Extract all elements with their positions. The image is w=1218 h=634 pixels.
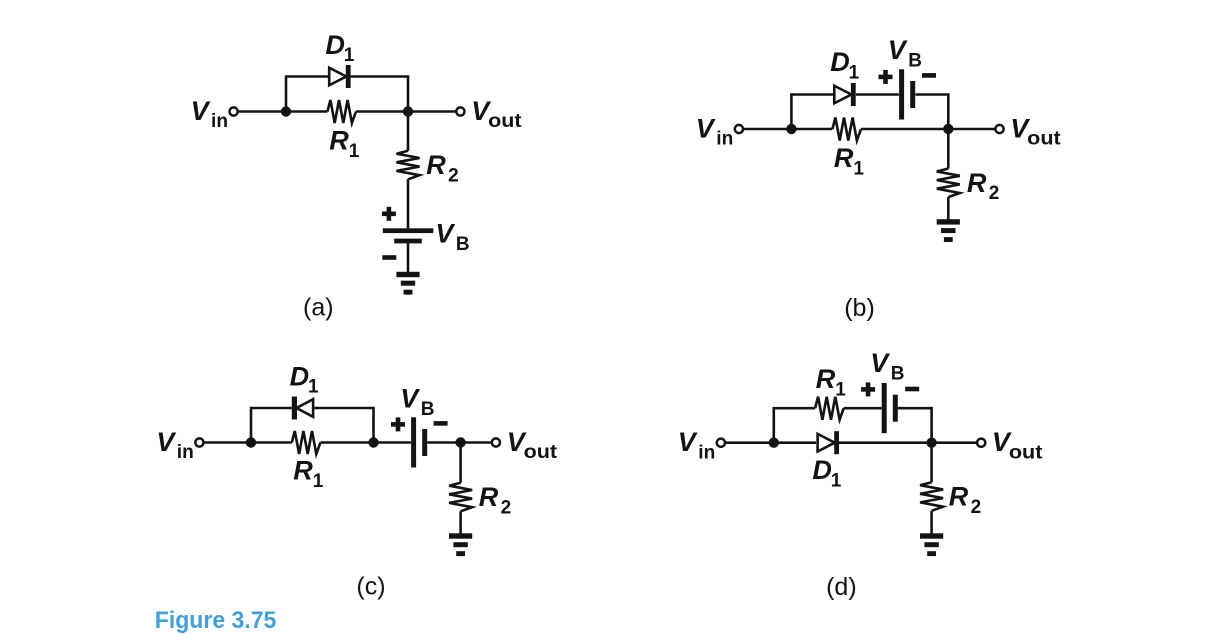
svg-text:R: R — [329, 126, 349, 156]
svg-text:2: 2 — [448, 165, 459, 186]
svg-text:Figure 3.75: Figure 3.75 — [155, 607, 276, 634]
svg-text:V: V — [156, 427, 176, 457]
svg-text:1: 1 — [853, 158, 864, 179]
svg-text:V: V — [888, 35, 908, 65]
svg-text:V: V — [191, 96, 211, 126]
svg-text:(a): (a) — [303, 294, 334, 322]
svg-text:1: 1 — [849, 62, 860, 83]
svg-text:D: D — [830, 47, 850, 77]
svg-text:B: B — [456, 234, 470, 255]
svg-text:D: D — [812, 455, 832, 485]
svg-text:in: in — [698, 442, 715, 463]
svg-text:2: 2 — [971, 497, 982, 518]
svg-text:(c): (c) — [356, 573, 385, 601]
svg-text:out: out — [1027, 129, 1061, 150]
svg-text:B: B — [421, 399, 435, 420]
svg-text:in: in — [177, 442, 194, 463]
svg-text:1: 1 — [349, 141, 360, 162]
svg-text:2: 2 — [989, 183, 1000, 204]
svg-text:1: 1 — [831, 470, 842, 491]
svg-text:V: V — [870, 348, 890, 378]
svg-text:V: V — [400, 384, 420, 414]
svg-text:D: D — [325, 30, 345, 60]
svg-text:1: 1 — [313, 471, 324, 492]
svg-text:R: R — [967, 168, 987, 198]
svg-text:(d): (d) — [826, 573, 857, 601]
svg-text:in: in — [211, 111, 228, 132]
svg-text:R: R — [949, 482, 969, 512]
svg-text:D: D — [290, 361, 310, 391]
svg-text:V: V — [435, 219, 455, 249]
svg-text:out: out — [1009, 442, 1043, 463]
svg-text:in: in — [716, 129, 733, 150]
svg-text:R: R — [816, 364, 836, 394]
svg-text:R: R — [479, 482, 499, 512]
svg-text:R: R — [426, 150, 446, 180]
svg-text:out: out — [524, 442, 558, 463]
svg-text:B: B — [908, 51, 922, 72]
svg-text:B: B — [891, 363, 905, 384]
svg-text:1: 1 — [344, 45, 355, 66]
svg-text:out: out — [488, 111, 522, 132]
svg-text:V: V — [696, 113, 716, 143]
svg-text:V: V — [678, 427, 698, 457]
svg-text:R: R — [834, 143, 854, 173]
svg-text:(b): (b) — [844, 294, 875, 322]
svg-text:1: 1 — [835, 379, 846, 400]
svg-text:R: R — [293, 456, 313, 486]
svg-text:2: 2 — [501, 497, 512, 518]
svg-text:1: 1 — [308, 377, 319, 398]
